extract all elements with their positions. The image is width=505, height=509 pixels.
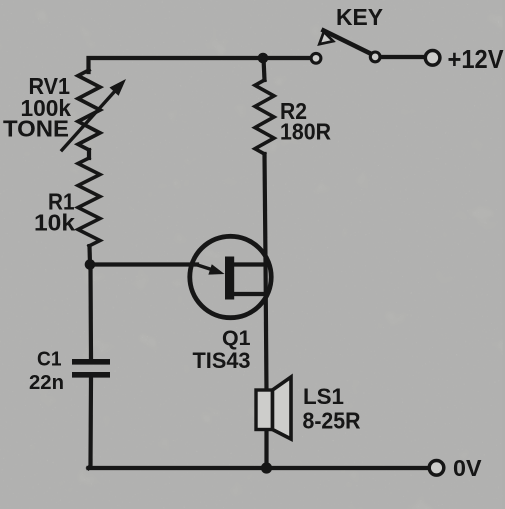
potentiometer RV1 bbox=[78, 70, 100, 150]
svg-text:22n: 22n bbox=[29, 371, 64, 394]
label 10k bbox=[34, 210, 76, 236]
terminal +12V bbox=[425, 51, 440, 66]
svg-text:180R: 180R bbox=[280, 119, 331, 145]
label R2 bbox=[280, 98, 307, 124]
svg-text:10k: 10k bbox=[34, 210, 76, 236]
label RV1 bbox=[29, 73, 71, 99]
wire top junction to R2 bbox=[264, 58, 265, 80]
svg-text:0V: 0V bbox=[453, 455, 482, 481]
wire top rail bbox=[89, 58, 310, 72]
wire bottom rail bbox=[89, 466, 428, 470]
label LS1 bbox=[303, 384, 344, 409]
svg-text:LS1: LS1 bbox=[303, 384, 344, 409]
transistor Q1 (UJT) bbox=[190, 236, 271, 317]
svg-text:TONE: TONE bbox=[3, 116, 69, 142]
svg-text:8-25R: 8-25R bbox=[303, 408, 361, 434]
switch KEY lever bbox=[319, 31, 372, 55]
speaker LS1 bbox=[256, 377, 291, 439]
label 0V bbox=[453, 455, 482, 481]
resistor R1 bbox=[78, 158, 100, 246]
label KEY bbox=[336, 4, 383, 30]
label 180R bbox=[280, 119, 331, 145]
wire switch to +12V terminal bbox=[381, 55, 425, 59]
terminal 0V bbox=[429, 461, 444, 476]
svg-text:KEY: KEY bbox=[336, 4, 383, 30]
wire left junction to C1 bbox=[88, 265, 93, 360]
wire RV1 to R1 bbox=[87, 150, 91, 158]
label 100k bbox=[21, 95, 72, 121]
wire R2 down through transistor to speaker bbox=[265, 154, 267, 392]
resistor R2 bbox=[255, 80, 274, 154]
capacitor C1 bbox=[72, 359, 110, 378]
svg-text:TIS43: TIS43 bbox=[193, 348, 251, 373]
label TIS43 bbox=[193, 348, 251, 373]
scan edge shadow right bbox=[503, 0, 505, 509]
node bottom junction bbox=[261, 462, 272, 473]
label TONE bbox=[3, 116, 69, 142]
label R1 bbox=[48, 189, 75, 215]
svg-text:C1: C1 bbox=[37, 348, 62, 371]
svg-text:+12V: +12V bbox=[448, 46, 504, 74]
svg-text:Q1: Q1 bbox=[222, 326, 251, 350]
label +12V bbox=[448, 46, 504, 74]
wire speaker to bottom junction bbox=[264, 427, 268, 468]
wire emitter from left junction bbox=[95, 262, 197, 266]
label 8-25R bbox=[303, 408, 361, 434]
switch KEY contact right bbox=[370, 52, 380, 62]
label Q1 bbox=[222, 326, 251, 350]
switch KEY contact left bbox=[311, 53, 321, 63]
label C1 bbox=[37, 348, 62, 371]
node left junction bbox=[85, 259, 96, 270]
node top junction bbox=[258, 53, 269, 64]
wire C1 to bottom rail bbox=[89, 378, 92, 468]
RV1 wiper arrow bbox=[62, 79, 126, 150]
label 22n bbox=[29, 371, 64, 394]
wire R1 to left junction bbox=[87, 246, 92, 265]
